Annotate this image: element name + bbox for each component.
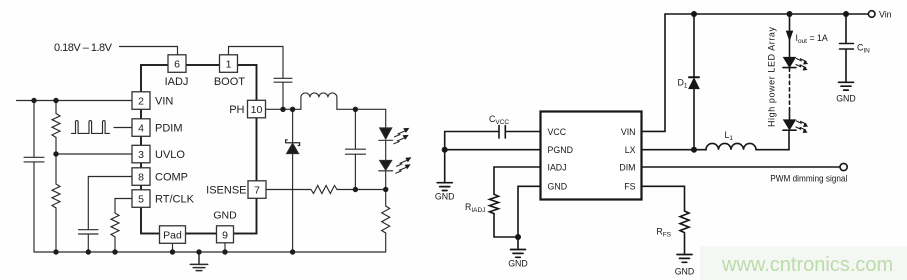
ground symbol CIN	[839, 82, 854, 90]
wire BOOT top	[229, 47, 284, 79]
wire FS	[641, 186, 685, 211]
svg-text:GND: GND	[508, 259, 528, 269]
diode schottky catch, cathode hooks	[286, 140, 300, 146]
wire LED mid	[385, 141, 387, 161]
resistor divider lower	[52, 184, 60, 208]
pin 3 box	[132, 145, 150, 163]
pin 2 box	[132, 92, 150, 110]
svg-text:10: 10	[251, 104, 263, 116]
pin name labels left IC	[54, 42, 247, 222]
svg-text:FS: FS	[624, 182, 635, 192]
inductor left circuit	[301, 93, 337, 109]
svg-text:ISENSE: ISENSE	[206, 184, 246, 196]
wire RIADJ bottom to gnd node	[494, 214, 518, 237]
wire UVLO	[56, 153, 132, 155]
node PH diode dot	[290, 107, 295, 112]
pin 6 box	[168, 55, 186, 73]
LED D3 arrows	[396, 157, 412, 173]
wire RFS bottom	[684, 234, 686, 254]
wire LED branch top with Iout arrow	[789, 14, 791, 58]
node D1 top dot	[691, 11, 697, 17]
pin 7 box	[248, 181, 266, 199]
component labels right circuit	[435, 10, 892, 277]
wire ISENSE to LED node	[337, 189, 386, 191]
node out cap bottom dot	[353, 187, 358, 192]
svg-text:VIN: VIN	[155, 96, 173, 108]
diode schottky triangle	[287, 143, 299, 153]
wire L1 to LED bottom	[756, 130, 789, 149]
node rail dot pad	[170, 249, 175, 254]
junction dots right circuit	[442, 11, 849, 240]
wire ground rail bottom	[34, 251, 386, 253]
pulse generator symbol PDIM	[72, 121, 110, 134]
resistor ISENSE series	[311, 186, 337, 194]
capacitor COMP	[79, 230, 99, 234]
resistor RFS	[680, 211, 689, 233]
wire diode bottom crosses ISENSE	[292, 154, 294, 252]
svg-text:3: 3	[138, 149, 144, 161]
svg-text:Vin: Vin	[879, 10, 892, 20]
LED D2 cathode bar	[379, 139, 393, 141]
svg-text:IADJ: IADJ	[548, 162, 567, 172]
wire Pad stub	[172, 244, 174, 253]
wire LED branch top	[385, 109, 387, 128]
pin 4 box	[132, 119, 150, 137]
node LED top dot	[787, 11, 793, 17]
wire LED solid below dashes	[789, 109, 791, 120]
LED DL1 cathode bar	[783, 67, 796, 69]
node D1 LX dot	[691, 147, 697, 153]
node out cap top dot	[353, 107, 358, 112]
node rail dot diode	[290, 249, 295, 254]
svg-text:2: 2	[138, 95, 144, 107]
wire RT/CLK resistor bottom	[114, 237, 116, 252]
node rail dot pin9	[222, 249, 227, 254]
LED D2 arrows	[394, 128, 410, 144]
svg-text:High power LED Array: High power LED Array	[767, 27, 777, 128]
svg-text:PH: PH	[229, 104, 244, 116]
wire IADJ input	[120, 47, 178, 55]
ground symbol left of IC	[437, 183, 452, 191]
svg-text:PDIM: PDIM	[155, 123, 183, 135]
terminal Vin	[868, 11, 875, 18]
svg-text:9: 9	[222, 229, 228, 241]
svg-text:GND: GND	[213, 210, 237, 222]
wire D1 branch	[693, 14, 695, 150]
svg-text:8: 8	[138, 171, 144, 183]
ground symbol below IC	[511, 250, 526, 258]
wire divider branch top	[55, 101, 57, 114]
svg-text:COMP: COMP	[155, 172, 188, 184]
node PGND dot	[442, 147, 448, 153]
wire PH node	[266, 108, 302, 110]
pin boxes left IC	[132, 55, 266, 244]
svg-text:LX: LX	[625, 145, 636, 155]
IC U2 driver outline	[541, 112, 642, 200]
wire divider mid	[55, 138, 57, 185]
wire pin9 stub	[224, 243, 226, 253]
svg-text:BOOT: BOOT	[214, 76, 245, 88]
node VIN-C dot	[31, 98, 36, 103]
wire top rail	[665, 13, 868, 15]
wire VIN riser	[641, 14, 665, 131]
wire CIN branch	[845, 14, 847, 82]
node rail dot 3	[112, 249, 117, 254]
diode D1 cathode bar	[689, 76, 699, 78]
wire LED dashed mid	[789, 68, 791, 109]
node rail dot 1	[53, 249, 58, 254]
wire LED bottom to sense node	[385, 171, 387, 206]
pin numbers left IC	[138, 58, 262, 241]
wire divider bottom	[55, 208, 57, 252]
LED D3 cathode bar	[379, 170, 393, 172]
ground symbol RFS	[677, 255, 692, 263]
svg-text:VCC: VCC	[548, 127, 567, 137]
svg-text:RT/CLK: RT/CLK	[155, 194, 195, 206]
capacitor output	[346, 149, 366, 154]
LED D2 top triangle	[380, 128, 392, 139]
svg-text:Pad: Pad	[163, 229, 182, 241]
svg-text:1: 1	[226, 58, 232, 70]
node RIADJ gnd dot	[515, 234, 521, 240]
resistor sense-to-gnd	[382, 206, 390, 233]
LED DL1 triangle	[784, 57, 796, 67]
LED DL2 arrows	[796, 121, 808, 133]
node rail dot 2	[86, 249, 91, 254]
node VIN-divider dot	[53, 98, 58, 103]
op-amp U1 regulator IC outline	[141, 65, 257, 234]
pin 10 box	[248, 100, 266, 118]
svg-text:PGND: PGND	[548, 145, 573, 155]
wire left branch CIN1 vertical bottom	[33, 162, 35, 252]
node UVLO dot	[53, 151, 58, 156]
wire DIM to terminal	[641, 166, 840, 168]
LED D3 bottom triangle	[380, 160, 392, 170]
wire GND pin	[518, 186, 541, 249]
pin 8 box	[132, 168, 150, 186]
capacitor CVCC plates	[499, 126, 505, 139]
node rail dot gnd	[196, 249, 201, 254]
LED DL1 arrows	[796, 59, 808, 71]
pin 5 box	[132, 190, 150, 208]
junction dots left circuit	[31, 98, 388, 255]
svg-text:DIM: DIM	[619, 162, 635, 172]
wire output cap bottom	[354, 154, 356, 189]
svg-text:GND: GND	[675, 267, 695, 277]
diode D1 triangle	[689, 78, 699, 88]
svg-text:GND: GND	[435, 192, 455, 202]
pin 1 box	[220, 55, 238, 73]
svg-text:5: 5	[138, 193, 144, 205]
svg-text:IADJ: IADJ	[165, 76, 189, 88]
wire sense resistor bottom	[385, 233, 387, 252]
wire IADJ	[494, 167, 541, 194]
terminal PWM	[840, 163, 847, 170]
wire COMP cap bottom	[87, 234, 89, 252]
inductor L1	[706, 143, 756, 149]
svg-text:0.18V – 1.8V: 0.18V – 1.8V	[54, 42, 113, 54]
pin name labels right IC	[548, 127, 636, 192]
svg-text:UVLO: UVLO	[155, 149, 185, 161]
LED DL2 triangle	[784, 120, 796, 130]
capacitor CIN plates	[840, 44, 854, 50]
LED DL2 cathode bar	[783, 129, 796, 131]
wire PGND	[445, 149, 541, 151]
resistor RT/CLK	[111, 213, 119, 237]
pin 9 box	[217, 226, 234, 243]
wire left branch CIN1 vertical top	[33, 101, 35, 158]
wire RT/CLK	[115, 199, 132, 214]
arrow Iout	[786, 31, 792, 40]
pin Pad box	[160, 226, 186, 244]
wire BOOT cap bottom	[282, 82, 284, 109]
svg-text:VIN: VIN	[621, 127, 636, 137]
svg-text:7: 7	[254, 184, 260, 196]
capacitor BOOT	[274, 78, 292, 82]
node LED sense dot	[383, 187, 388, 192]
capacitor input C left	[24, 157, 44, 162]
svg-text:GND: GND	[836, 94, 856, 104]
node PH boot dot	[280, 107, 285, 112]
wire VIN input rail	[17, 100, 133, 102]
watermark band	[700, 246, 907, 280]
wire ISENSE	[266, 189, 311, 191]
wire LX	[641, 149, 706, 151]
wire diode top	[292, 109, 294, 142]
ground symbol left circuit	[190, 252, 207, 271]
svg-text:4: 4	[138, 122, 144, 134]
svg-text:6: 6	[174, 58, 180, 70]
wire COMP	[88, 177, 132, 230]
wire PDIM	[114, 127, 132, 129]
wire VCC to cap	[445, 131, 541, 133]
resistor divider upper	[52, 114, 60, 138]
resistor RIADJ	[490, 194, 499, 213]
wire inductor to LED node	[337, 108, 386, 110]
wire left gnd branch	[444, 132, 446, 183]
svg-text:GND: GND	[548, 182, 568, 192]
svg-text:www.cntronics.com: www.cntronics.com	[721, 254, 893, 276]
svg-text:PWM dimming signal: PWM dimming signal	[770, 174, 847, 184]
node CIN top dot	[843, 11, 849, 17]
wire output cap top	[354, 109, 356, 149]
